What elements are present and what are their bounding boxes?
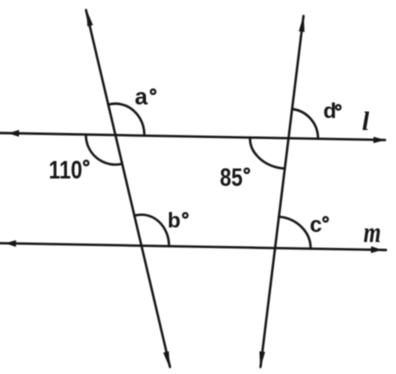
svg-text:85: 85 <box>220 165 243 192</box>
svg-text:c: c <box>310 212 322 237</box>
svg-text:110: 110 <box>49 157 83 184</box>
svg-text:l: l <box>362 107 370 136</box>
svg-text:d: d <box>323 99 336 123</box>
svg-text:b: b <box>168 208 181 232</box>
svg-text:a: a <box>135 84 148 110</box>
svg-text:m: m <box>364 216 382 249</box>
